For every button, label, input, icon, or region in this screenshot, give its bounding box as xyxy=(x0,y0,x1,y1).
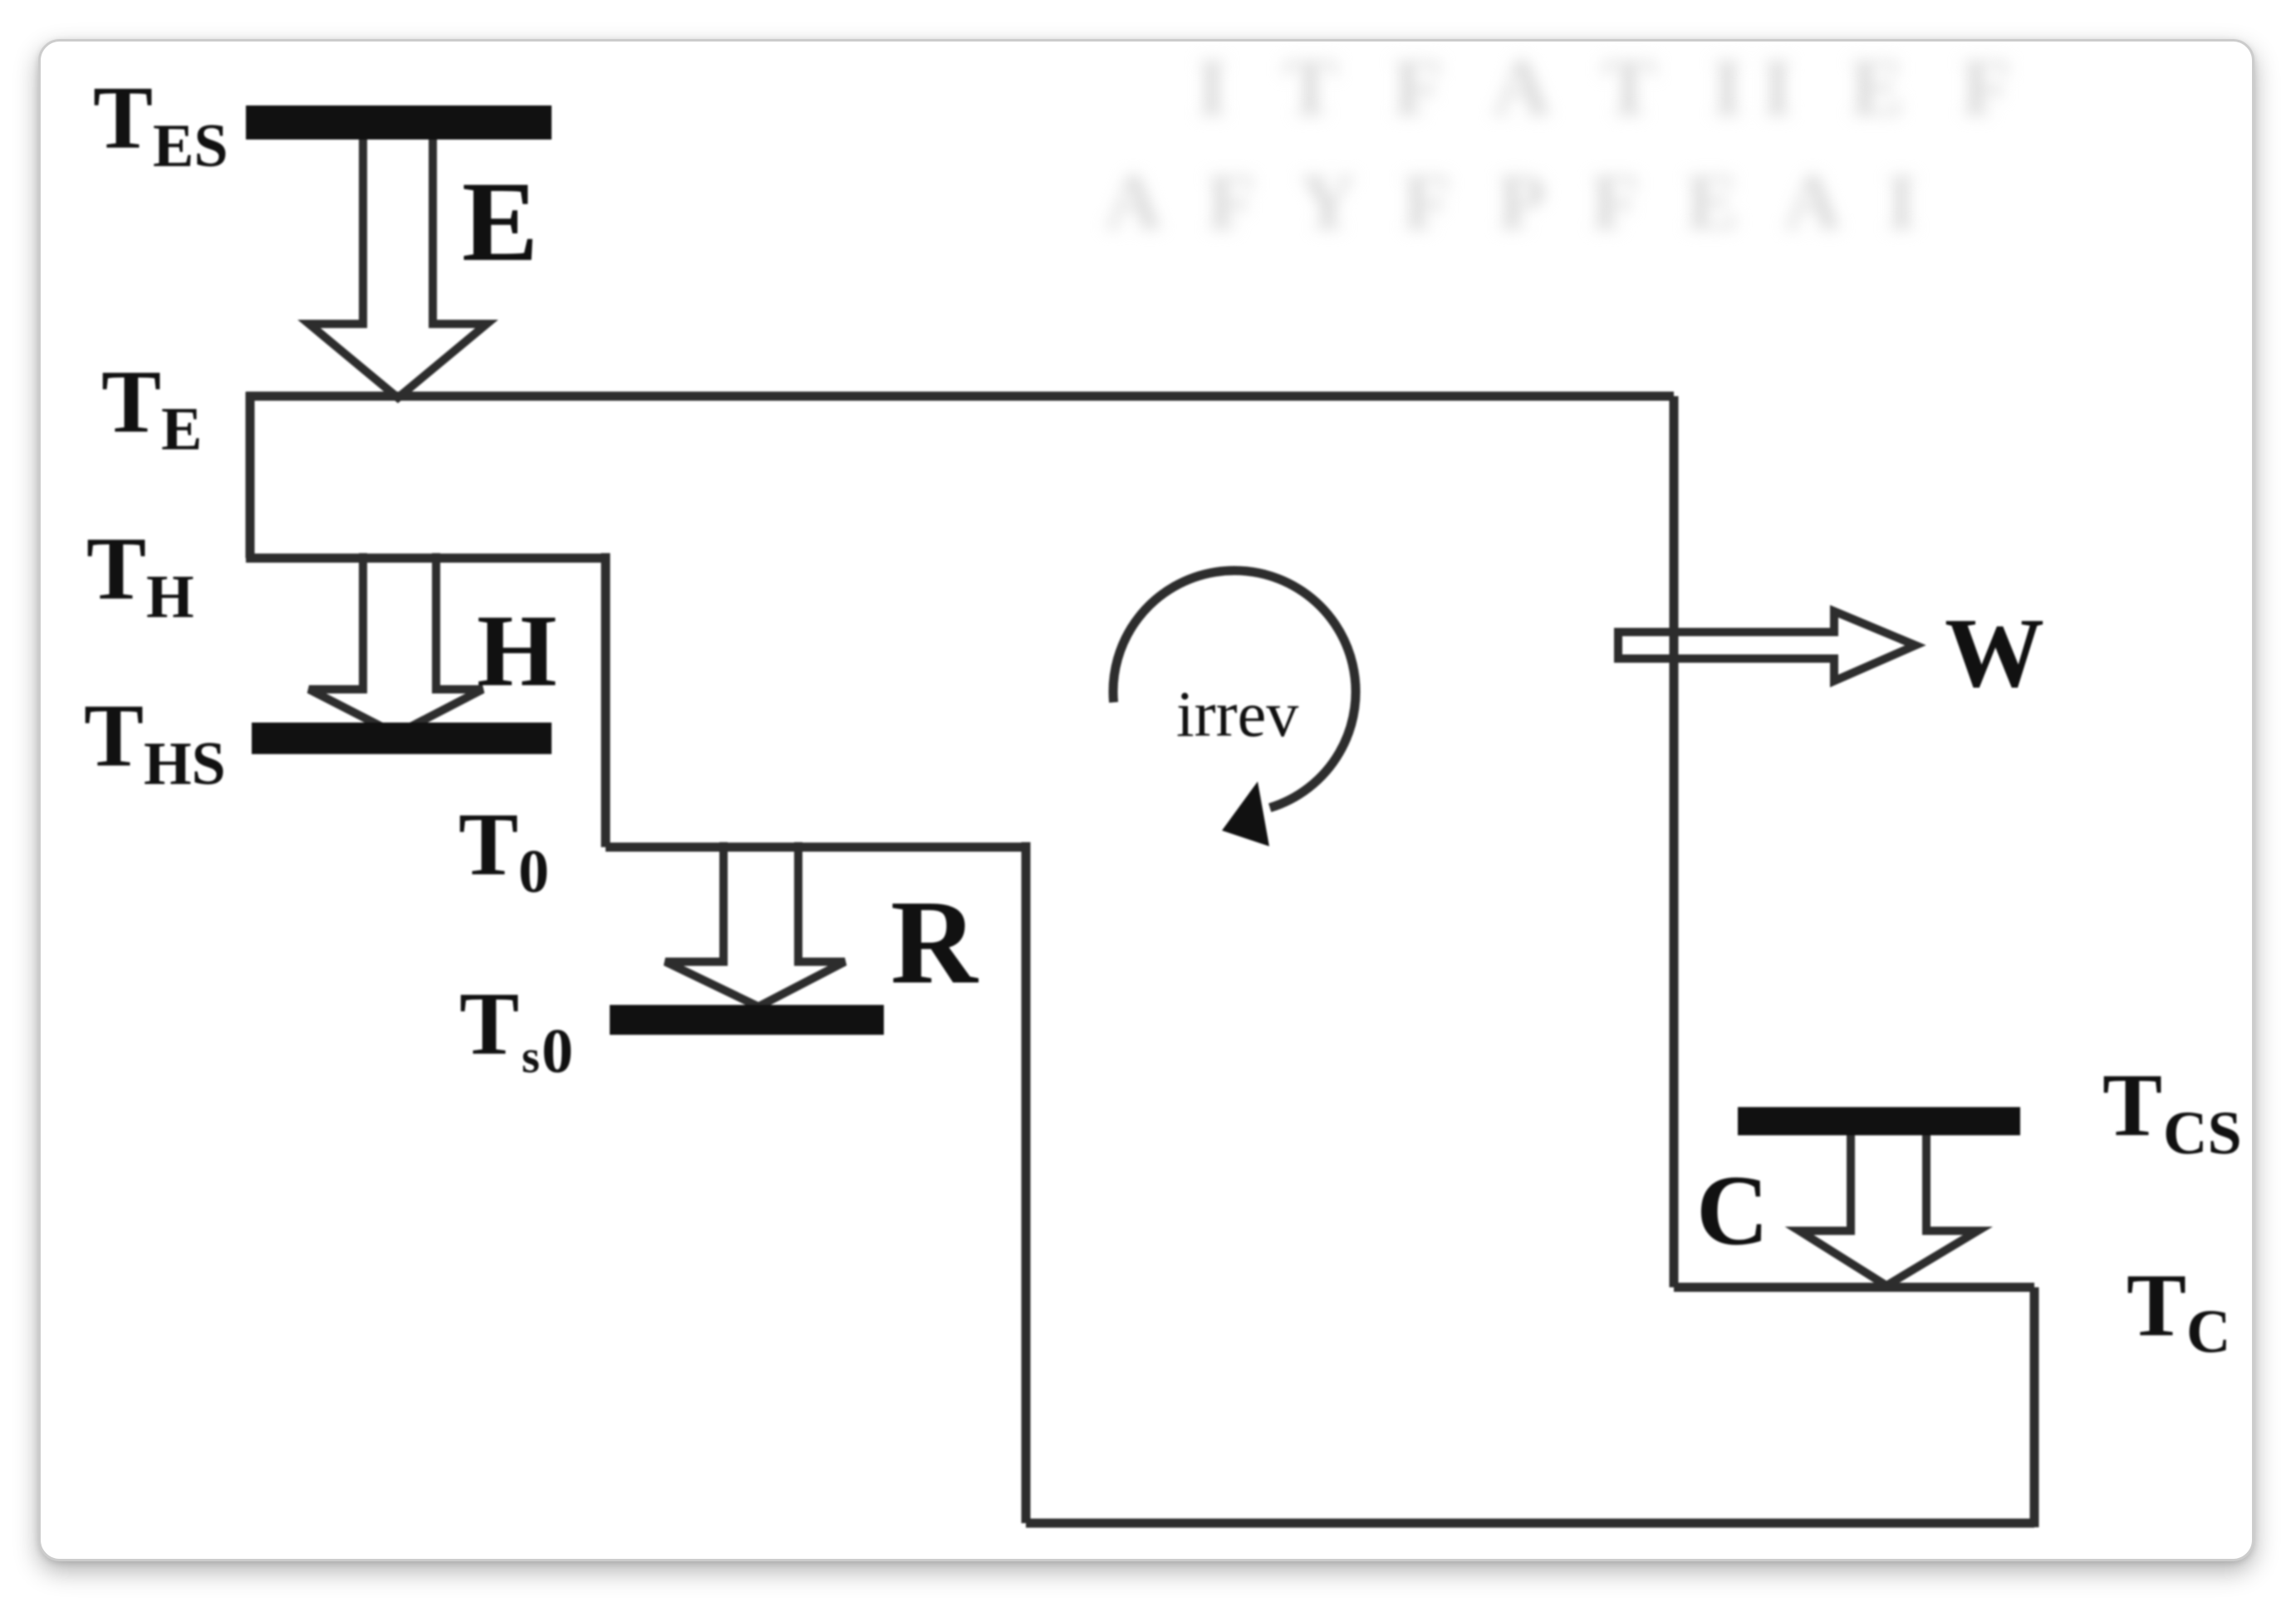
svg-text:HS: HS xyxy=(144,730,226,798)
svg-text:T: T xyxy=(86,520,146,619)
reservoir bar T_CS xyxy=(1738,1107,2020,1135)
irrev cycle arc xyxy=(1113,571,1356,808)
wire right vertical upper xyxy=(1670,396,1679,1287)
svg-text:T: T xyxy=(2102,1056,2162,1155)
wire bottom horizontal xyxy=(1026,1519,2034,1528)
svg-text:H: H xyxy=(477,594,557,708)
ghost bleed-through text row 1 xyxy=(1196,42,2029,135)
svg-text:T: T xyxy=(84,687,144,786)
arrow E (hollow, down) xyxy=(309,126,487,398)
svg-text:T: T xyxy=(459,796,518,894)
svg-text:T: T xyxy=(2127,1257,2186,1355)
irrev arrowhead xyxy=(1222,782,1269,846)
wire left vertical xyxy=(246,392,255,558)
svg-text:s: s xyxy=(522,1031,540,1083)
arrow W (hollow, right) xyxy=(1618,611,1916,681)
wire mid vertical 1 xyxy=(601,553,611,847)
svg-text:0: 0 xyxy=(518,838,549,906)
arrow C (hollow, down) xyxy=(1799,1129,1978,1286)
wire mid vertical 2 xyxy=(1022,842,1031,1523)
svg-text:ES: ES xyxy=(153,112,228,180)
wire right vertical lower xyxy=(2030,1287,2039,1527)
wire T_E top horizontal xyxy=(246,392,1674,401)
svg-text:CS: CS xyxy=(2163,1100,2242,1168)
wire T_0 horizontal xyxy=(606,843,1026,852)
reservoir bar T_HS xyxy=(252,723,552,754)
svg-text:C: C xyxy=(1696,1155,1769,1267)
arrow R (hollow, down) xyxy=(665,842,845,1007)
svg-text:irrev: irrev xyxy=(1176,678,1298,750)
reservoir bar T_ES xyxy=(246,105,552,140)
svg-text:0: 0 xyxy=(542,1017,573,1086)
svg-text:T: T xyxy=(459,975,519,1074)
svg-text:E: E xyxy=(462,158,538,285)
arrow H (hollow, down) xyxy=(309,553,483,734)
svg-text:C: C xyxy=(2186,1298,2230,1366)
svg-text:T: T xyxy=(101,353,161,452)
wire T_H horizontal xyxy=(246,554,606,563)
svg-text:E: E xyxy=(161,395,202,463)
svg-text:T: T xyxy=(93,69,153,168)
wire T_C horizontal xyxy=(1674,1283,2034,1292)
reservoir bar T_s0 xyxy=(610,1005,884,1035)
svg-text:H: H xyxy=(146,563,194,631)
svg-text:W: W xyxy=(1945,597,2044,708)
svg-text:R: R xyxy=(890,876,979,1009)
ghost bleed-through text row 2 xyxy=(1105,156,1932,247)
